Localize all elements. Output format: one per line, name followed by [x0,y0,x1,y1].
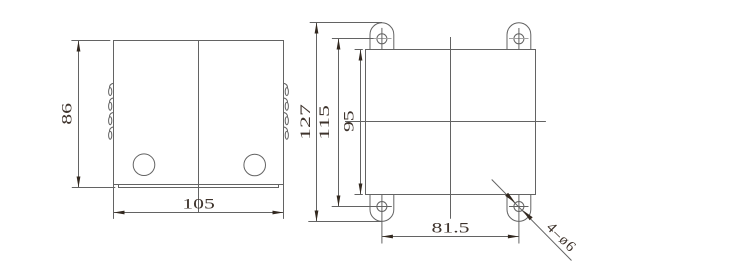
arrow leader lower [522,210,532,220]
louver right 1 [283,83,288,95]
louver left 3 [109,112,114,124]
hole top-left center marks [332,38,374,40]
arrow 127 down [315,211,319,222]
arrow 115 up [337,39,341,50]
arrow 105 left [114,211,125,215]
dim 95 extension bottom [355,194,363,196]
arrow 127 up [315,23,319,34]
left view screw hole right [244,154,266,176]
right view body [366,50,536,195]
louver right 3 [283,112,288,124]
dim 81.5 line [382,236,519,238]
hole bottom-right [514,202,524,212]
dim 127 extension bottom [308,221,382,223]
hole bottom-right center marks [509,206,529,208]
svg-text:127: 127 [297,104,313,140]
arrow leader upper [505,193,515,203]
svg-text:105: 105 [182,195,215,212]
leader line 4-d6 [492,180,572,261]
arrow 81.5 left [382,235,393,239]
right view vertical center line [450,37,452,219]
left view center parting line [198,41,200,213]
svg-text:81.5: 81.5 [431,219,469,236]
hole bottom-left center marks [332,206,392,208]
hole bottom-left [377,202,387,212]
dim 95 line [360,50,362,195]
svg-text:115: 115 [316,105,332,140]
dim 105 extension left [113,185,115,219]
dim 86 extension top [71,40,110,42]
louver left 4 [109,127,114,139]
svg-text:86: 86 [59,103,76,125]
dim 115 line [338,39,340,207]
dim 105 extension right [283,185,285,219]
louver right 2 [283,98,288,110]
left view base plate [119,185,279,188]
louver left 1 [109,83,114,95]
arrow 81.5 right [508,235,519,239]
arrow 115 down [337,196,341,207]
arrow 95 up [359,50,363,61]
mounting ear bottom-right [507,195,531,222]
mounting ear top-right [507,23,531,50]
hole top-left [377,34,387,44]
right view horizontal mid line [345,121,546,123]
left view enclosure box [114,41,284,185]
mounting ear top-left [370,23,394,50]
left view screw hole left [133,154,155,176]
arrow 95 down [359,184,363,195]
arrow 105 right [273,211,284,215]
louver right 4 [283,127,288,139]
louver left 2 [109,98,114,110]
hole top-right center marks [509,38,529,40]
dim 86 line [78,41,80,188]
dim 105 line [114,212,284,214]
hole top-right [514,34,524,44]
arrow 86 up [77,41,81,52]
dim 95 extension top [355,49,363,51]
arrow 86 down [77,177,81,188]
dim 127 line [316,23,318,222]
dim 127 extension top [310,22,382,24]
svg-text:95: 95 [341,110,358,132]
mounting ear bottom-left [370,195,394,222]
dim 86 extension bottom [72,187,116,189]
